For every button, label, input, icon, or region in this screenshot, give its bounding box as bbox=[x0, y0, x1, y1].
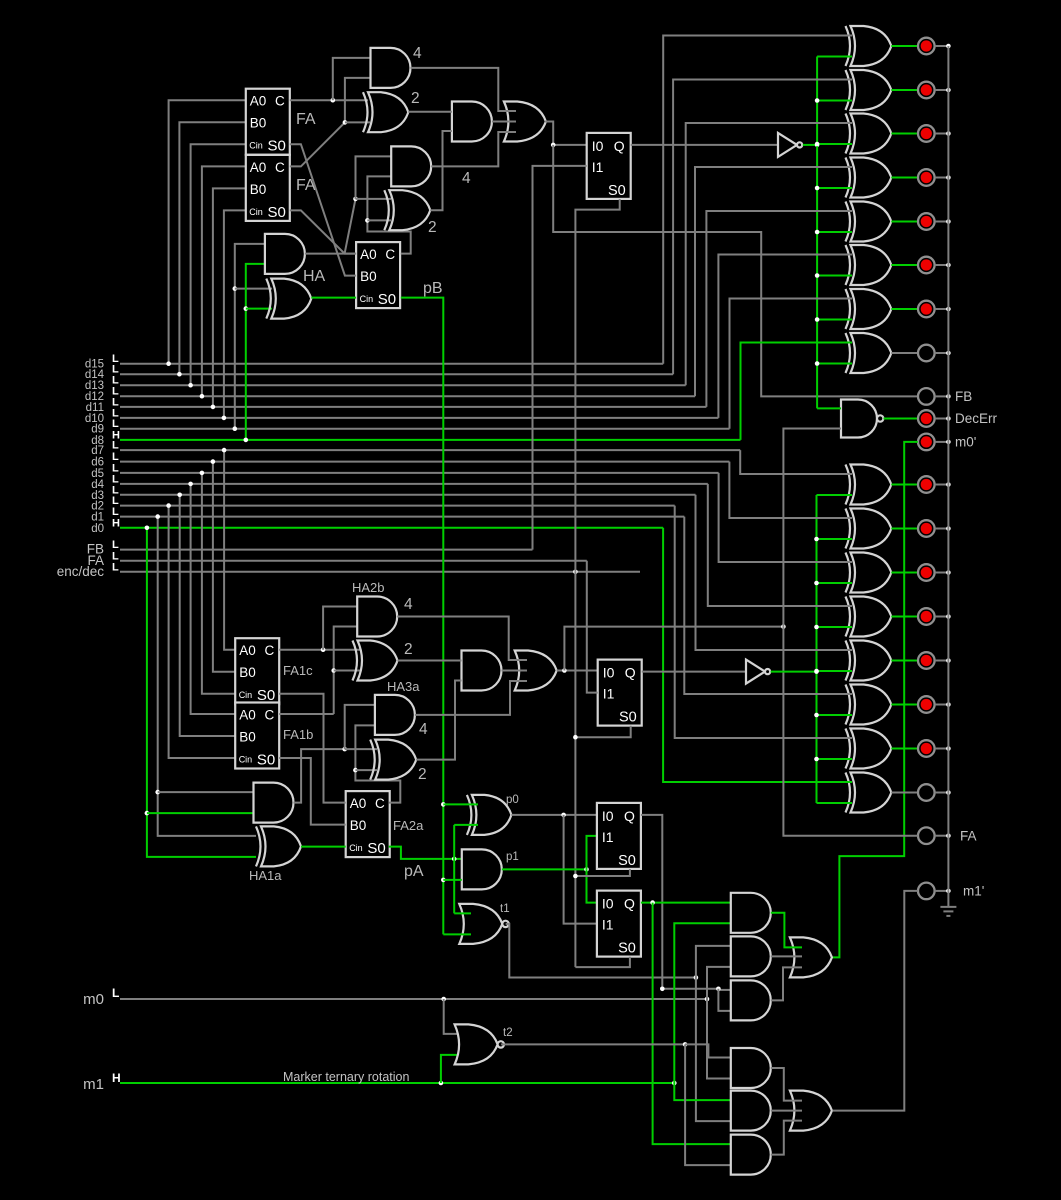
wire FA1b.C riser to HA2b bottom / XOR2b bottom bbox=[334, 627, 358, 715]
wire d10 row bbox=[120, 417, 718, 419]
wire d5 staircase riser to check gate (bottom) bbox=[719, 473, 852, 562]
svg-text:Cin: Cin bbox=[249, 141, 263, 151]
wire d1 riser to HA1a bbox=[158, 517, 256, 836]
wire box2.C to XOR1 bottom input bbox=[345, 121, 370, 123]
wire ANDa1 out to ORa top (green) bbox=[771, 913, 802, 948]
svg-text:L: L bbox=[112, 440, 119, 452]
output circle m1' bbox=[918, 883, 935, 900]
wire box1 C output bbox=[290, 99, 368, 101]
wire d11 staircase riser to check gate bbox=[706, 211, 852, 407]
svg-text:HA3a: HA3a bbox=[387, 679, 420, 694]
wire d15 staircase riser to check gate bbox=[663, 36, 852, 364]
svg-text:I1: I1 bbox=[603, 686, 615, 702]
multiplexer mux4 bbox=[597, 891, 641, 957]
LED m0' bbox=[918, 434, 935, 451]
wire LED5 to rail bbox=[935, 221, 949, 223]
wire d2 row bbox=[120, 505, 675, 507]
xor gate out9 check bbox=[851, 289, 892, 329]
node HA1a carry split bbox=[342, 747, 347, 752]
svg-text:4: 4 bbox=[462, 170, 471, 187]
wire d11 row bbox=[120, 406, 706, 408]
wire rail2 stub gate2 bbox=[817, 538, 853, 540]
wire d4 row bbox=[120, 483, 708, 485]
svg-text:B0: B0 bbox=[250, 182, 267, 197]
wire p1 riser up to mux3 I1 (green) bbox=[587, 836, 597, 870]
LED out10 bbox=[918, 257, 935, 274]
wire rail2 stub gate8 bbox=[817, 802, 853, 804]
svg-text:S0: S0 bbox=[378, 291, 396, 308]
xor gate out11 check bbox=[851, 202, 892, 242]
wire OR6 out to mux2 I0 bbox=[557, 670, 598, 672]
LED out11 bbox=[918, 213, 935, 230]
wire HA sum to FA3.Cin (green) bbox=[311, 297, 356, 299]
node pB p0 tap bbox=[441, 802, 446, 807]
wire HA3a out to OR6 bottom bbox=[415, 681, 527, 715]
svg-text:H: H bbox=[112, 1071, 121, 1085]
node m0 t2 tap bbox=[441, 997, 446, 1002]
svg-text:d1: d1 bbox=[91, 512, 104, 524]
wire ANDa2 out to ORa middle bbox=[771, 955, 802, 957]
multiplexer mux1 bbox=[587, 133, 631, 199]
node output rail bottom 3 bbox=[946, 570, 951, 575]
LED out14 bbox=[918, 82, 935, 99]
svg-text:2: 2 bbox=[418, 766, 427, 783]
wire out10 to LED (green) bbox=[891, 264, 918, 266]
xor gate out13 check bbox=[851, 114, 892, 154]
wire XOR1 out to AND3 top bbox=[408, 111, 452, 113]
xor gate p0 bbox=[472, 795, 512, 835]
wire parity top out bbox=[891, 352, 918, 354]
svg-text:S0: S0 bbox=[367, 840, 385, 857]
wire riser to AND2 top input bbox=[356, 156, 392, 199]
node rail FA bbox=[946, 833, 951, 838]
svg-text:B0: B0 bbox=[350, 818, 367, 833]
svg-text:A0: A0 bbox=[239, 643, 256, 658]
wire FA1b.C to XOR2b bottom input bbox=[334, 670, 370, 672]
wire enc/dec row bbox=[120, 571, 640, 573]
xor gate out5 check bbox=[851, 553, 892, 593]
svg-text:Cin: Cin bbox=[360, 294, 374, 304]
svg-text:Q: Q bbox=[614, 138, 625, 154]
wire box2 C output + diagonal bbox=[290, 122, 345, 166]
wire d0 row bbox=[120, 527, 663, 529]
svg-text:I0: I0 bbox=[603, 665, 615, 681]
wire OR6 net to NAND bottom and FA output bbox=[564, 627, 783, 671]
svg-text:p0: p0 bbox=[506, 794, 519, 806]
svg-text:I0: I0 bbox=[602, 808, 614, 824]
wire d5 row bbox=[120, 472, 719, 474]
wire m0 row bbox=[120, 998, 707, 1000]
wire rail1 stub gate7 bbox=[817, 319, 852, 321]
wire rail2 stub gate3 bbox=[817, 582, 853, 584]
wire FA2a S0 pA output (green) bbox=[389, 847, 462, 859]
wire FA1c C output to XOR2b top bbox=[279, 649, 368, 651]
svg-text:C: C bbox=[385, 247, 395, 262]
node rail DecErr bbox=[946, 416, 951, 421]
wire LED2 to rail (bottom) bbox=[935, 528, 949, 530]
wire rail1 stub gate1 bbox=[817, 56, 852, 58]
and gate AND2 weight4 bbox=[391, 146, 431, 186]
node XOR3a bottom tap bbox=[353, 768, 358, 773]
wire AND1 out to OR4 top bbox=[411, 68, 517, 111]
wire LED8 to rail (bottom) bbox=[935, 792, 949, 794]
svg-text:A0: A0 bbox=[360, 247, 377, 262]
wire mux4 Q out to ANDa1 top (green) bbox=[641, 902, 731, 904]
svg-text:C: C bbox=[264, 643, 274, 658]
wire LED8 to rail bbox=[935, 352, 949, 354]
xor gate out12 check bbox=[851, 158, 892, 198]
wire mux2 Q to NOT2 bbox=[642, 671, 746, 673]
wire FA3.S0 pB output (green) bbox=[401, 298, 444, 805]
wire LED5 to rail (bottom) bbox=[935, 660, 949, 662]
svg-text:FA: FA bbox=[296, 111, 316, 128]
and gate ANDa3 bbox=[731, 980, 771, 1020]
node mux4 Q split bbox=[650, 900, 655, 905]
node OR6 net split 2 bbox=[781, 624, 786, 629]
wire mux3Q riser to ANDa3 bottom bbox=[718, 989, 730, 1011]
wire d0 to HA1a AND bottom input (green) bbox=[147, 812, 254, 814]
nor gate t1 bbox=[459, 904, 502, 944]
wire d7 staircase riser to check gate (bottom) bbox=[740, 450, 852, 474]
wire LED3 to rail (bottom) bbox=[935, 572, 949, 574]
node rail2 junction 2 bbox=[814, 537, 819, 542]
svg-text:B0: B0 bbox=[239, 665, 256, 680]
LED DecErr bbox=[918, 410, 935, 427]
or gate ORa bbox=[790, 937, 832, 977]
svg-text:pA: pA bbox=[404, 863, 424, 880]
svg-text:L: L bbox=[112, 506, 119, 518]
wire ANDb2 out to ORb middle bbox=[771, 1110, 802, 1112]
wire d8 row bbox=[120, 439, 741, 441]
wire pA to p0 bottom input (green) bbox=[454, 824, 478, 826]
and gate AND1 weight4 bbox=[371, 48, 411, 88]
wire pB to t1 bottom input (green) bbox=[443, 933, 471, 935]
svg-text:A0: A0 bbox=[350, 796, 367, 811]
node output rail 5 bbox=[946, 219, 951, 224]
node output rail bottom 7 bbox=[946, 746, 951, 751]
LED out9 bbox=[918, 301, 935, 318]
svg-text:L: L bbox=[112, 451, 119, 463]
and gate ANDa1 bbox=[731, 893, 771, 933]
wire m1 riser to ANDb2 top (green) bbox=[674, 1083, 731, 1100]
wire LED6 to rail bbox=[935, 264, 949, 266]
wire XOR2v top input bbox=[356, 198, 392, 200]
node enc/dec select junction bbox=[573, 570, 578, 575]
wire OR4 out to mux1 I0 and FB output bbox=[545, 122, 587, 145]
node p1 out split bbox=[584, 867, 589, 872]
wire LED2 to rail bbox=[935, 89, 949, 91]
and gate AND5 bbox=[462, 651, 502, 691]
node rail1 junction 4 bbox=[815, 186, 820, 191]
wire pA to t1 top input (green) bbox=[454, 912, 471, 914]
wire p1 out to mux3 I1 / mux4 I0 (green) bbox=[502, 868, 587, 870]
output circle parity top bbox=[918, 345, 935, 362]
svg-text:Marker ternary rotation: Marker ternary rotation bbox=[283, 1070, 409, 1084]
node select mux2 bbox=[573, 735, 578, 740]
svg-text:Q: Q bbox=[624, 808, 635, 824]
wire FA1b C output bbox=[279, 713, 334, 715]
and gate HA3a weight4 bbox=[375, 695, 415, 735]
wire OR6 net to FA output circle bbox=[783, 627, 917, 836]
xor gate out4 check bbox=[851, 597, 892, 637]
svg-text:I0: I0 bbox=[592, 138, 604, 154]
wire NOT2 out to rail2 (green) bbox=[771, 671, 817, 673]
wire pB riser feeds (green) bbox=[442, 804, 444, 934]
svg-text:S0: S0 bbox=[619, 710, 637, 726]
svg-text:L: L bbox=[112, 986, 119, 1000]
output circle parity bottom bbox=[918, 784, 935, 801]
wire d15 riser to FA inputs bbox=[169, 100, 246, 364]
xor gate HA sum bbox=[271, 279, 311, 319]
wire XOR2b out to AND5 top bbox=[398, 660, 462, 662]
svg-text:A0: A0 bbox=[239, 708, 256, 723]
wire mux3 S0 select bbox=[575, 869, 630, 876]
wire rail2 stub gate1 bbox=[817, 494, 853, 496]
wire m0 riser to ANDb1 bottom bbox=[707, 999, 731, 1079]
wire d9 staircase riser to check gate bbox=[730, 299, 853, 429]
output circle FA bbox=[918, 827, 935, 844]
xor gate out8 check bbox=[851, 333, 892, 373]
wire rail1 into NAND top (green) bbox=[817, 407, 841, 409]
svg-text:2: 2 bbox=[404, 641, 413, 658]
wire d0 staircase riser to check gate (bottom) bbox=[663, 528, 852, 782]
wire rail2 stub gate6 bbox=[817, 714, 853, 716]
xor gate out10 check bbox=[851, 245, 892, 285]
wire rail1 stub gate6 bbox=[817, 275, 852, 277]
node m0 cluster split bbox=[705, 997, 710, 1002]
node p0 out split bbox=[561, 813, 566, 818]
node rail2 junction 4 bbox=[814, 625, 819, 630]
multiplexer mux3 bbox=[597, 803, 641, 869]
wire d8 staircase riser to check gate bbox=[741, 343, 853, 440]
svg-text:C: C bbox=[275, 160, 285, 175]
wire out14 to LED (green) bbox=[891, 89, 918, 91]
LED out6 bbox=[918, 520, 935, 537]
wire pB to p0 top input (green) bbox=[443, 803, 478, 805]
svg-text:p1: p1 bbox=[506, 851, 519, 863]
wire t1 out down bbox=[506, 924, 696, 978]
LED out7 bbox=[918, 476, 935, 493]
wire p0 riser to mux4 I1 bbox=[564, 815, 597, 924]
wire mux1 Q to NOT1 bbox=[631, 144, 778, 146]
svg-text:m1: m1 bbox=[83, 1076, 104, 1093]
wire AND3 out to OR4 middle bbox=[492, 121, 516, 123]
full adder FA3 (pB) bbox=[356, 242, 400, 308]
svg-text:enc/dec: enc/dec bbox=[57, 564, 105, 579]
wire mux2 S0 select bbox=[575, 726, 630, 737]
node pB p1 tap bbox=[441, 878, 446, 883]
wire FB riser to mux1 I1 bbox=[533, 166, 587, 550]
node d9 HA-XOR tap bbox=[233, 286, 238, 291]
wire AND2 out to OR4 bottom bbox=[431, 132, 516, 166]
wire box1.C riser to AND1 top bbox=[333, 58, 371, 100]
node box1.C split bbox=[331, 98, 336, 103]
node rail2 NOT junction bbox=[814, 669, 819, 674]
wire d3 staircase riser to check gate (bottom) bbox=[696, 495, 853, 650]
node d1 AND tap bbox=[155, 790, 160, 795]
wire mux4 S0 select bbox=[575, 957, 630, 967]
LED out3 bbox=[918, 652, 935, 669]
node output rail bottom 4 bbox=[946, 614, 951, 619]
svg-text:Q: Q bbox=[624, 896, 635, 912]
full adder FA (box1) bbox=[246, 89, 290, 155]
wire d3 riser to FA1 inputs bbox=[180, 495, 236, 736]
node OR4 out split bbox=[551, 143, 556, 148]
wire box1 S0 diagonal to FA3.B0 bbox=[290, 144, 356, 275]
svg-text:B0: B0 bbox=[360, 269, 377, 284]
svg-text:S0: S0 bbox=[257, 752, 275, 769]
wire d5 riser to FA1 inputs bbox=[202, 473, 235, 694]
wire p0 out to mux3 I0 bbox=[511, 814, 597, 816]
wire select net riser (enc/dec) bbox=[574, 572, 576, 967]
and gate HA1a carry bbox=[254, 783, 294, 823]
wire d10 riser to FA inputs bbox=[224, 210, 246, 418]
node rail2 junction 3 bbox=[814, 581, 819, 586]
wire p1 riser down to mux4 I0 (green) bbox=[587, 869, 597, 902]
node mux3 Q corner bbox=[660, 987, 665, 992]
wire ANDa3 out to ORa bottom bbox=[771, 967, 802, 1000]
wire out12 to LED (green) bbox=[891, 177, 918, 179]
wire rail2 stub gate4 bbox=[817, 626, 853, 628]
svg-text:FA1b: FA1b bbox=[283, 727, 313, 742]
wire FA circle to rail bbox=[935, 835, 949, 837]
svg-text:B0: B0 bbox=[239, 730, 256, 745]
wire out11 to LED (green) bbox=[891, 221, 918, 223]
wire d0 riser to HA1a (green) bbox=[147, 528, 256, 857]
xor gate XOR3a weight2 bbox=[375, 740, 416, 780]
wire m0' feed from ORa (green) bbox=[833, 442, 918, 958]
wire t2 to ANDb1 top bbox=[685, 1044, 731, 1057]
svg-text:4: 4 bbox=[413, 45, 422, 62]
wire rail1 stub gate3 bbox=[817, 143, 852, 145]
node t2 out split bbox=[683, 1042, 688, 1047]
wire XOR3a bottom input bbox=[355, 769, 377, 771]
xor gate out3 check bbox=[851, 641, 892, 681]
node t1 out split bbox=[694, 975, 699, 980]
svg-text:4: 4 bbox=[419, 721, 428, 738]
svg-text:FA2a: FA2a bbox=[393, 818, 424, 833]
svg-text:FA: FA bbox=[960, 829, 977, 844]
wire XOR2v bottom input bbox=[367, 219, 391, 221]
node rail1 junction 3 bbox=[815, 142, 820, 147]
xor gate out1 check bbox=[851, 729, 892, 769]
wire d6 riser to FA1 inputs bbox=[213, 462, 235, 672]
wire d14 row bbox=[120, 373, 673, 375]
node FA1b.C XOR2b tap bbox=[331, 668, 336, 673]
wire LED4 to rail bbox=[935, 177, 949, 179]
svg-text:m0: m0 bbox=[83, 991, 104, 1008]
node rail2 junction 5 bbox=[814, 669, 819, 674]
wire out4 to LED (green) bbox=[891, 616, 918, 618]
LED out4 bbox=[918, 608, 935, 625]
svg-text:2: 2 bbox=[428, 219, 437, 236]
wire mux3Q to ANDa3 top bbox=[718, 989, 730, 991]
wire ANDb3 out to ORb bottom bbox=[771, 1121, 802, 1155]
svg-text:I0: I0 bbox=[602, 896, 614, 912]
node rail m1' bbox=[946, 889, 951, 894]
svg-text:HA2b: HA2b bbox=[352, 580, 385, 595]
wire LED4 to rail (bottom) bbox=[935, 616, 949, 618]
wire d12 row bbox=[120, 395, 695, 397]
wire rail2 stub gate5 bbox=[817, 670, 853, 672]
wire LED3 to rail bbox=[935, 133, 949, 135]
node output rail 4 bbox=[946, 175, 951, 180]
node rail1 junction 6 bbox=[815, 273, 820, 278]
svg-text:A0: A0 bbox=[250, 94, 267, 109]
full adder FA (box2) bbox=[246, 155, 290, 221]
svg-text:Cin: Cin bbox=[239, 755, 253, 765]
wire NOT1 out to rail1 (green) bbox=[803, 144, 817, 146]
not gate NOT2 bbox=[746, 660, 765, 684]
wire d7 riser to FA1 inputs bbox=[224, 450, 235, 650]
and gate ANDb3 bbox=[731, 1135, 771, 1175]
xor gate XOR2b weight2 bbox=[358, 641, 398, 681]
node rail2 junction 6 bbox=[814, 713, 819, 718]
node output rail 8 bbox=[946, 351, 951, 356]
wire out3 to LED (green) bbox=[891, 660, 918, 662]
wire output rail vertical bbox=[947, 46, 949, 891]
and gate HA2b weight4 bbox=[357, 597, 397, 637]
wire XOR2v out to AND3 bottom bbox=[430, 131, 452, 210]
svg-text:I1: I1 bbox=[602, 829, 614, 845]
node output rail 3 bbox=[946, 131, 951, 136]
LED out1 bbox=[918, 740, 935, 757]
wire ANDb1 out to ORb top bbox=[771, 1068, 802, 1101]
svg-text:2: 2 bbox=[411, 90, 420, 107]
wire t1 riser to ANDb2 bottom bbox=[696, 978, 731, 1122]
wire out5 to LED (green) bbox=[891, 572, 918, 574]
node output rail 1 bbox=[946, 44, 951, 49]
wire HA1a carry up to HA3a/XOR3a bbox=[294, 749, 345, 803]
wire d2 staircase riser to check gate (bottom) bbox=[675, 506, 852, 738]
ground bbox=[947, 891, 949, 907]
wire OR6 net riser to NAND bottom bbox=[783, 429, 841, 627]
svg-text:B0: B0 bbox=[250, 116, 267, 131]
wire rail2 stub gate7 bbox=[817, 758, 853, 760]
wire d9 row bbox=[120, 428, 730, 430]
wire LED1 to rail bbox=[935, 45, 949, 47]
wire HA2b out to OR6 top bbox=[397, 617, 527, 661]
wire d8 riser to HA (green) bbox=[246, 264, 265, 440]
wire parity bottom out bbox=[891, 792, 918, 794]
wire FA3.C routing to XOR2v/AND2 bottom bbox=[367, 176, 410, 253]
wire d12 riser to FA inputs bbox=[202, 166, 246, 396]
wire t1 riser to ANDa2 top bbox=[696, 946, 731, 978]
wire rail1 stub gate5 bbox=[817, 231, 852, 233]
wire rail1 stub gate4 bbox=[817, 187, 852, 189]
wire LED7 to rail bbox=[935, 308, 949, 310]
node output rail bottom 8 bbox=[946, 790, 951, 795]
node output rail 6 bbox=[946, 263, 951, 268]
svg-text:A0: A0 bbox=[250, 160, 267, 175]
wire m1' circle to rail bbox=[935, 890, 949, 892]
wire m0' LED to rail bbox=[935, 441, 949, 443]
wire out2 to LED (green) bbox=[891, 704, 918, 706]
wire d1 staircase riser to check gate (bottom) bbox=[684, 517, 852, 694]
wire NAND out to DecErr LED (green) bbox=[884, 418, 918, 420]
wire LED6 to rail (bottom) bbox=[935, 704, 949, 706]
multiplexer mux2 bbox=[598, 660, 642, 726]
node rail2 junction 7 bbox=[814, 757, 819, 762]
svg-text:L: L bbox=[112, 561, 119, 573]
wire FA3.A0 net diagonal up to XOR2v bbox=[345, 199, 356, 254]
svg-text:I1: I1 bbox=[602, 917, 614, 933]
wire d4 staircase riser to check gate (bottom) bbox=[708, 484, 852, 606]
and gate p1 bbox=[462, 849, 502, 889]
svg-text:HA1a: HA1a bbox=[249, 868, 282, 883]
svg-text:Q: Q bbox=[625, 665, 636, 681]
node OR6 out split bbox=[562, 668, 567, 673]
